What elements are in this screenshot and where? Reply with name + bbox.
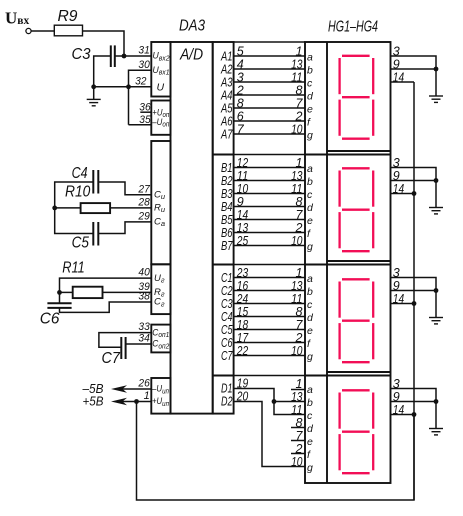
wire pin31 xyxy=(124,55,151,57)
wire xyxy=(94,56,111,87)
svg-text:e: e xyxy=(307,436,313,448)
wire pin9 xyxy=(391,68,437,70)
svg-text:a: a xyxy=(307,273,313,285)
wire pin3 xyxy=(391,56,437,96)
svg-text:Cа: Cа xyxy=(154,217,165,229)
node junction xyxy=(122,54,127,59)
svg-text:e: e xyxy=(307,104,313,116)
node junction xyxy=(91,84,96,89)
svg-text:A7: A7 xyxy=(220,128,233,142)
svg-text:10: 10 xyxy=(237,182,248,196)
svg-text:13: 13 xyxy=(237,221,248,235)
wire ladder xyxy=(234,375,305,377)
svg-text:D2: D2 xyxy=(221,395,233,409)
svg-text:R11: R11 xyxy=(62,260,85,277)
svg-text:33: 33 xyxy=(138,321,150,333)
wire xyxy=(234,193,305,195)
svg-text:3: 3 xyxy=(237,70,244,84)
display section divider xyxy=(327,371,391,373)
svg-text:19: 19 xyxy=(237,376,248,390)
svg-text:1: 1 xyxy=(296,377,303,391)
ground xyxy=(429,317,443,319)
output column divider xyxy=(213,264,234,266)
svg-text:7: 7 xyxy=(296,318,304,332)
svg-text:17: 17 xyxy=(237,331,249,345)
wire xyxy=(234,245,305,247)
svg-text:8: 8 xyxy=(296,83,303,97)
wire xyxy=(60,291,73,293)
wire xyxy=(55,207,81,209)
wire 14 bus xyxy=(413,82,415,500)
output column divider xyxy=(213,154,234,156)
svg-text:16: 16 xyxy=(237,279,248,293)
svg-text:7: 7 xyxy=(296,96,304,110)
svg-text:11: 11 xyxy=(291,403,302,417)
wire D1 xyxy=(234,389,305,415)
svg-text:R9: R9 xyxy=(58,8,78,25)
svg-text:c: c xyxy=(307,410,313,422)
wire pin35 xyxy=(129,124,152,126)
svg-text:A/D: A/D xyxy=(179,47,203,64)
wire pin28 xyxy=(110,207,151,209)
wire pin39 xyxy=(103,291,152,293)
capacitor C4 xyxy=(92,170,94,194)
svg-text:d: d xyxy=(307,423,314,435)
svg-text:C4: C4 xyxy=(72,165,88,182)
svg-text:C1: C1 xyxy=(221,271,233,285)
svg-text:25: 25 xyxy=(236,234,248,248)
svg-text:C6: C6 xyxy=(221,336,233,350)
svg-text:d: d xyxy=(307,91,314,103)
wire pin40 xyxy=(60,278,152,292)
wire xyxy=(83,31,125,56)
7-segment digit HG2 xyxy=(342,167,370,169)
svg-text:15: 15 xyxy=(237,305,248,319)
svg-text:Uвх1: Uвх1 xyxy=(153,65,170,77)
svg-text:2: 2 xyxy=(295,109,303,123)
wire ladder xyxy=(234,264,305,266)
node junction xyxy=(57,290,62,295)
svg-text:1: 1 xyxy=(296,266,303,280)
wire xyxy=(234,232,305,234)
svg-text:9: 9 xyxy=(393,390,400,404)
wire xyxy=(234,290,305,292)
svg-text:B2: B2 xyxy=(221,174,233,188)
wire stub xyxy=(291,440,305,442)
svg-text:+Uип: +Uип xyxy=(152,396,169,408)
svg-text:3: 3 xyxy=(393,266,400,280)
node junction xyxy=(272,399,277,404)
svg-text:13: 13 xyxy=(291,390,302,404)
svg-text:2: 2 xyxy=(295,442,303,456)
svg-text:C3: C3 xyxy=(72,46,91,63)
svg-text:Rи: Rи xyxy=(154,203,166,215)
svg-text:4: 4 xyxy=(237,57,244,71)
DA3 main body xyxy=(171,42,213,414)
svg-text:7: 7 xyxy=(237,122,245,136)
wire D2 xyxy=(234,402,305,467)
wire pin38 xyxy=(60,302,152,312)
svg-text:Uвх: Uвх xyxy=(5,9,29,28)
wire pin34 xyxy=(126,343,152,345)
svg-text:11: 11 xyxy=(237,169,248,183)
ground xyxy=(429,207,443,209)
left column box Cu xyxy=(151,141,170,264)
wire xyxy=(234,94,305,96)
svg-text:7: 7 xyxy=(296,208,304,222)
wire pin3 xyxy=(391,389,437,429)
wire stub xyxy=(291,389,305,391)
svg-text:B6: B6 xyxy=(221,226,233,240)
svg-text:1: 1 xyxy=(144,390,150,402)
svg-text:3: 3 xyxy=(393,44,400,58)
svg-text:B3: B3 xyxy=(221,187,233,201)
svg-text:b: b xyxy=(307,286,313,298)
svg-text:+5В: +5В xyxy=(83,394,104,408)
svg-text:U: U xyxy=(157,82,165,94)
wire xyxy=(115,55,124,57)
node junction xyxy=(434,288,439,293)
wire pin29 xyxy=(98,222,151,234)
wire pin14 xyxy=(391,303,415,305)
svg-text:22: 22 xyxy=(236,344,248,358)
svg-text:c: c xyxy=(307,189,313,201)
svg-text:B7: B7 xyxy=(221,239,233,253)
svg-text:3: 3 xyxy=(393,377,400,391)
wire xyxy=(234,316,305,318)
wire xyxy=(234,81,305,83)
wire pin33 xyxy=(99,333,151,348)
svg-text:Uг: Uг xyxy=(154,273,165,285)
svg-text:1: 1 xyxy=(296,44,303,58)
svg-text:A6: A6 xyxy=(220,115,232,129)
svg-text:A3: A3 xyxy=(220,76,232,90)
display block HG outer xyxy=(305,42,391,483)
wire pin27 xyxy=(98,182,151,195)
svg-text:f: f xyxy=(307,117,311,129)
7-segment digit HG1 xyxy=(342,55,370,57)
wire pin9 xyxy=(391,180,437,182)
svg-text:C2: C2 xyxy=(221,284,233,298)
svg-text:10: 10 xyxy=(291,122,302,136)
svg-text:Cоп2: Cоп2 xyxy=(152,339,170,351)
ground xyxy=(429,95,443,97)
node junction xyxy=(412,412,417,417)
display section top xyxy=(305,264,391,266)
wire stub xyxy=(291,453,305,455)
svg-text:b: b xyxy=(307,397,313,409)
svg-text:8: 8 xyxy=(296,305,303,319)
wire pin14 xyxy=(391,193,415,195)
wire pin9 xyxy=(391,290,437,292)
wire pin14 xyxy=(391,414,415,416)
wire ladder xyxy=(234,154,305,156)
wire xyxy=(234,180,305,182)
wire xyxy=(234,167,305,169)
svg-text:9: 9 xyxy=(393,57,400,71)
svg-text:8: 8 xyxy=(296,416,303,430)
svg-text:b: b xyxy=(307,176,313,188)
resistor R11 xyxy=(73,287,103,298)
svg-text:3: 3 xyxy=(393,156,400,170)
svg-text:d: d xyxy=(307,312,314,324)
wire xyxy=(234,329,305,331)
svg-text:C6: C6 xyxy=(40,310,60,327)
svg-text:14: 14 xyxy=(237,208,248,222)
node junction xyxy=(412,191,417,196)
svg-text:26: 26 xyxy=(137,378,150,390)
svg-text:Cоп1: Cоп1 xyxy=(152,327,169,339)
arrow -5V xyxy=(111,385,127,393)
svg-text:35: 35 xyxy=(139,114,151,126)
svg-text:29: 29 xyxy=(137,211,149,223)
svg-text:e: e xyxy=(307,325,313,337)
wire pin9 xyxy=(391,401,437,403)
left column box Uip xyxy=(151,378,170,414)
wire xyxy=(59,292,61,303)
svg-text:6: 6 xyxy=(237,109,244,123)
svg-text:a: a xyxy=(307,163,313,175)
svg-text:g: g xyxy=(307,462,313,474)
left column box Uop xyxy=(151,101,170,135)
svg-text:9: 9 xyxy=(237,195,244,209)
svg-text:24: 24 xyxy=(236,292,248,306)
wire xyxy=(55,208,94,234)
svg-text:13: 13 xyxy=(291,57,302,71)
display section divider xyxy=(327,150,391,152)
svg-text:A4: A4 xyxy=(220,89,232,103)
svg-text:11: 11 xyxy=(291,70,302,84)
ground xyxy=(429,428,443,430)
resistor R9 xyxy=(54,25,82,36)
svg-text:C7: C7 xyxy=(102,350,121,367)
wire xyxy=(234,277,305,279)
svg-text:9: 9 xyxy=(393,279,400,293)
wire xyxy=(234,303,305,305)
7-segment digit HG4 xyxy=(342,389,370,391)
svg-text:12: 12 xyxy=(237,156,248,170)
wire xyxy=(234,68,305,70)
wire pin3 xyxy=(391,278,437,318)
svg-text:B5: B5 xyxy=(221,213,233,227)
svg-text:8: 8 xyxy=(296,195,303,209)
wire pin30 xyxy=(129,70,152,125)
capacitor C6 xyxy=(47,302,71,304)
svg-text:f: f xyxy=(307,228,311,240)
left column box Ug xyxy=(151,264,170,314)
wire xyxy=(234,55,305,57)
svg-text:2: 2 xyxy=(236,83,244,97)
svg-text:36: 36 xyxy=(139,102,151,114)
svg-text:f: f xyxy=(307,338,311,350)
wire xyxy=(274,401,305,403)
svg-text:C4: C4 xyxy=(221,310,233,324)
wire xyxy=(94,86,152,88)
svg-text:7: 7 xyxy=(296,429,304,443)
svg-text:28: 28 xyxy=(137,197,150,209)
svg-text:31: 31 xyxy=(138,45,149,57)
svg-text:A1: A1 xyxy=(220,50,232,64)
7-segment digit HG3 xyxy=(342,278,370,280)
left column box Cop xyxy=(151,325,170,353)
node junction xyxy=(52,206,57,211)
capacitor C5 xyxy=(92,222,94,246)
wire xyxy=(234,120,305,122)
svg-text:Cг: Cг xyxy=(154,297,165,309)
svg-text:D1: D1 xyxy=(221,382,233,396)
svg-text:Cи: Cи xyxy=(154,190,166,202)
svg-text:f: f xyxy=(307,449,311,461)
ground xyxy=(93,87,95,100)
svg-text:C5: C5 xyxy=(72,234,89,251)
svg-text:23: 23 xyxy=(236,266,248,280)
capacitor C3 xyxy=(110,45,112,67)
wire xyxy=(234,107,305,109)
svg-text:g: g xyxy=(307,130,313,142)
svg-text:g: g xyxy=(307,241,313,253)
wire xyxy=(31,30,54,32)
A/D converter DA3 left column box Uvx xyxy=(151,42,170,97)
node junction xyxy=(434,399,439,404)
display inner divider xyxy=(326,42,328,483)
svg-text:e: e xyxy=(307,215,313,227)
node junction xyxy=(134,399,139,404)
wire xyxy=(234,206,305,208)
svg-text:b: b xyxy=(307,65,313,77)
wire ladder top xyxy=(234,41,305,43)
wire pin3 xyxy=(391,168,437,208)
svg-text:DA3: DA3 xyxy=(179,18,205,35)
svg-text:1: 1 xyxy=(296,156,303,170)
capacitor C7 xyxy=(120,337,122,359)
svg-text:2: 2 xyxy=(295,221,303,235)
svg-text:10: 10 xyxy=(291,455,302,469)
svg-text:B1: B1 xyxy=(221,161,233,175)
svg-text:d: d xyxy=(307,202,314,214)
svg-text:C5: C5 xyxy=(221,323,233,337)
svg-text:HG1–HG4: HG1–HG4 xyxy=(328,19,378,36)
node junction xyxy=(126,84,131,89)
svg-text:5: 5 xyxy=(237,44,244,58)
wire xyxy=(234,133,305,135)
svg-text:34: 34 xyxy=(138,333,149,345)
svg-text:18: 18 xyxy=(237,318,248,332)
svg-text:32: 32 xyxy=(135,75,146,87)
wire xyxy=(55,182,94,208)
svg-text:20: 20 xyxy=(236,389,248,403)
svg-text:–Uоп: –Uоп xyxy=(151,117,169,129)
input terminal xyxy=(26,28,31,33)
output column divider xyxy=(213,375,234,377)
display section divider xyxy=(327,260,391,262)
DA3 output column xyxy=(213,42,234,414)
svg-text:27: 27 xyxy=(137,183,150,195)
svg-text:a: a xyxy=(307,384,313,396)
svg-text:C3: C3 xyxy=(221,297,233,311)
node junction xyxy=(434,178,439,183)
wire pin1 xyxy=(122,401,151,403)
arrow +5V xyxy=(111,398,127,406)
svg-text:c: c xyxy=(307,78,313,90)
wire +5V bus xyxy=(137,402,415,501)
svg-text:A5: A5 xyxy=(220,102,232,116)
svg-text:Uвх2: Uвх2 xyxy=(153,51,171,63)
svg-text:R10: R10 xyxy=(65,183,91,200)
svg-text:2: 2 xyxy=(295,331,303,345)
svg-text:10: 10 xyxy=(291,344,302,358)
svg-text:a: a xyxy=(307,52,313,64)
svg-text:8: 8 xyxy=(237,96,244,110)
svg-text:C7: C7 xyxy=(221,349,233,363)
wire stub xyxy=(291,427,305,429)
svg-text:30: 30 xyxy=(138,59,150,71)
svg-text:B4: B4 xyxy=(221,200,233,214)
svg-text:–Uип: –Uип xyxy=(151,384,169,396)
svg-text:A2: A2 xyxy=(220,63,232,77)
svg-text:g: g xyxy=(307,351,313,363)
svg-text:10: 10 xyxy=(291,234,302,248)
svg-text:9: 9 xyxy=(393,169,400,183)
display section top xyxy=(305,154,391,156)
svg-text:11: 11 xyxy=(291,182,302,196)
svg-text:13: 13 xyxy=(291,169,302,183)
node junction xyxy=(412,301,417,306)
pin 36 stub xyxy=(140,111,151,113)
svg-text:38: 38 xyxy=(138,291,150,303)
wire xyxy=(234,219,305,221)
svg-text:11: 11 xyxy=(291,292,302,306)
wire xyxy=(234,355,305,357)
svg-text:13: 13 xyxy=(291,279,302,293)
display section top xyxy=(305,375,391,377)
svg-text:40: 40 xyxy=(138,267,150,279)
wire pin14 xyxy=(391,81,415,83)
node junction xyxy=(434,67,439,72)
svg-text:c: c xyxy=(307,299,313,311)
wire pin26 xyxy=(122,388,151,390)
resistor R10 xyxy=(81,203,111,213)
wire xyxy=(234,342,305,344)
